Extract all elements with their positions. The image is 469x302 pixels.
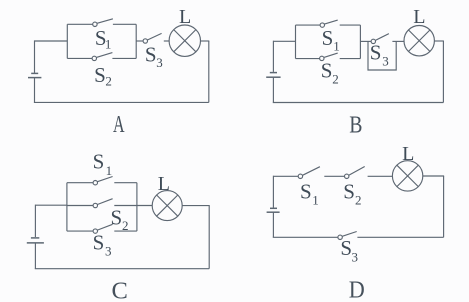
wire D: top horizontal battery to S1: [273, 175, 298, 177]
svg-text:1: 1: [106, 163, 113, 178]
wire D: left vertical below battery: [272, 212, 274, 237]
svg-text:L: L: [158, 173, 170, 195]
svg-text:1: 1: [312, 192, 319, 207]
svg-text:A: A: [113, 111, 125, 138]
wire B: top branch right segment: [340, 24, 361, 26]
switch S1 (circuit A): [93, 19, 113, 27]
battery (circuit B): [266, 73, 280, 78]
wire D: bottom left segment to S3: [273, 236, 338, 238]
wire D: S2 to lamp: [368, 175, 393, 177]
svg-text:2: 2: [122, 218, 129, 233]
wire C: left vertical above battery: [34, 205, 36, 237]
svg-text:2: 2: [332, 72, 339, 87]
label: option letter A: [113, 111, 125, 138]
wire D: bottom right segment from S3: [357, 236, 443, 238]
svg-text:3: 3: [352, 249, 359, 264]
label S3 (circuit C): [93, 231, 112, 259]
wire C: left vertical below battery: [34, 243, 36, 269]
svg-text:1: 1: [105, 37, 112, 52]
switch S1 (circuit B): [320, 20, 338, 27]
wire B: top-left horizontal from battery to box: [273, 40, 295, 42]
switch S2 (circuit A): [92, 53, 112, 61]
wire C: right vertical: [208, 206, 210, 269]
svg-text:S: S: [145, 43, 157, 67]
wire A: bottom branch right segment: [112, 57, 136, 59]
wire A: bottom branch left segment: [67, 57, 92, 59]
wire A: S3 to lamp: [164, 40, 170, 42]
svg-text:S: S: [321, 59, 333, 83]
svg-text:L: L: [413, 6, 425, 28]
wire B: bottom branch right segment: [340, 58, 361, 60]
svg-text:L: L: [179, 6, 191, 28]
lamp L (circuit D): [392, 161, 422, 191]
battery (circuit D): [267, 208, 280, 212]
svg-text:C: C: [112, 277, 128, 302]
wire B: bottom horizontal: [273, 102, 444, 104]
switch S3 (circuit B): [371, 34, 389, 44]
wire B: left vertical above battery: [272, 41, 274, 72]
wire D: right vertical: [443, 176, 445, 237]
label L (circuit A): [179, 6, 191, 28]
wire B: box to S3: [360, 40, 371, 42]
svg-text:S: S: [370, 41, 382, 65]
svg-text:S: S: [111, 205, 123, 229]
wire C: top-left horizontal from battery to box: [35, 204, 67, 206]
wire D: lamp to right corner: [423, 175, 444, 177]
lamp L (circuit B): [404, 26, 434, 56]
switch S3 (circuit C): [93, 224, 112, 233]
label: option letter C: [112, 277, 128, 302]
svg-text:S: S: [343, 179, 355, 203]
lamp L (circuit A): [169, 25, 200, 56]
label L (circuit C): [158, 173, 170, 195]
wire B: right vertical: [442, 41, 444, 103]
svg-text:3: 3: [105, 244, 112, 259]
wire B: shorting loop around S3: [368, 41, 396, 70]
wire B: top branch left segment: [296, 24, 321, 26]
switch S2 (circuit C): [93, 199, 112, 208]
wire C: bottom branch left segment: [67, 230, 93, 232]
label S2 (circuit B): [321, 59, 339, 87]
wire D: left vertical above battery: [272, 176, 274, 208]
svg-text:L: L: [402, 143, 414, 165]
wire B: lamp to right corner: [435, 40, 444, 42]
lamp L (circuit C): [152, 191, 182, 221]
wire C: middle branch left segment: [67, 205, 93, 207]
svg-text:S: S: [93, 150, 105, 174]
wire C: top branch left segment: [67, 182, 93, 184]
label S1 (circuit B): [322, 26, 340, 54]
label L (circuit D): [402, 143, 414, 165]
svg-text:B: B: [349, 112, 362, 139]
svg-text:S: S: [300, 179, 312, 203]
svg-text:S: S: [340, 236, 352, 260]
svg-text:S: S: [322, 26, 334, 50]
wire A: box to S3: [136, 40, 143, 42]
wire A: lamp to right corner: [200, 40, 209, 42]
svg-text:3: 3: [382, 54, 389, 69]
svg-text:S: S: [94, 63, 106, 87]
battery (circuit A): [28, 73, 41, 77]
wire C: middle branch right segment to lamp: [114, 205, 152, 207]
wire B: bottom branch left segment: [296, 58, 320, 60]
node B: parallel box right edge: [359, 25, 361, 59]
wire A: top branch right segment: [113, 23, 136, 25]
wire C: lamp to right corner: [182, 205, 209, 207]
label S2 (circuit A): [94, 63, 112, 89]
node A: parallel box left edge: [66, 24, 68, 58]
node A: parallel box right edge: [135, 24, 137, 58]
wire C: bottom branch right segment: [114, 230, 137, 232]
switch S3 (circuit D): [338, 232, 357, 240]
wire A: left vertical above battery: [34, 40, 36, 73]
label S1 (circuit D): [300, 179, 319, 207]
label S3 (circuit D): [340, 236, 358, 264]
switch S1 (circuit D): [298, 167, 320, 179]
svg-text:1: 1: [333, 39, 340, 54]
svg-text:3: 3: [156, 55, 163, 70]
label L (circuit B): [413, 6, 425, 28]
svg-text:D: D: [349, 276, 365, 302]
label S1 (circuit C): [93, 150, 113, 179]
wire A: bottom horizontal: [34, 101, 209, 103]
wire A: left vertical below battery: [34, 78, 36, 103]
wire A: top-left horizontal from battery to box: [35, 40, 68, 42]
wire B: left vertical below battery: [272, 77, 274, 102]
wire D: S1 to S2: [324, 175, 344, 177]
node C: parallel box left edge: [66, 183, 68, 231]
battery (circuit C): [27, 238, 44, 243]
label: option letter D: [349, 276, 365, 302]
wire C: top branch right segment: [114, 182, 137, 184]
switch S2 (circuit B): [320, 53, 338, 61]
label: option letter B: [349, 112, 362, 139]
label S3 (circuit B): [370, 41, 389, 69]
switch S1 (circuit C): [93, 177, 112, 185]
node C: parallel box right edge: [136, 183, 138, 231]
node B: parallel box left edge: [295, 25, 297, 59]
wire A: top branch left segment: [67, 23, 92, 25]
svg-text:2: 2: [355, 192, 362, 207]
wire C: bottom horizontal: [35, 268, 209, 270]
label S3 (circuit A): [145, 43, 163, 70]
wire B: S3 to lamp: [392, 40, 404, 42]
wire A: right vertical: [208, 41, 210, 102]
switch S3 (circuit A): [143, 33, 162, 43]
svg-text:2: 2: [105, 74, 112, 89]
switch S2 (circuit D): [345, 167, 365, 179]
label S1 (circuit A): [95, 26, 112, 52]
label S2 (circuit D): [343, 179, 361, 207]
svg-text:S: S: [93, 231, 105, 255]
label S2 (circuit C): [111, 205, 129, 233]
